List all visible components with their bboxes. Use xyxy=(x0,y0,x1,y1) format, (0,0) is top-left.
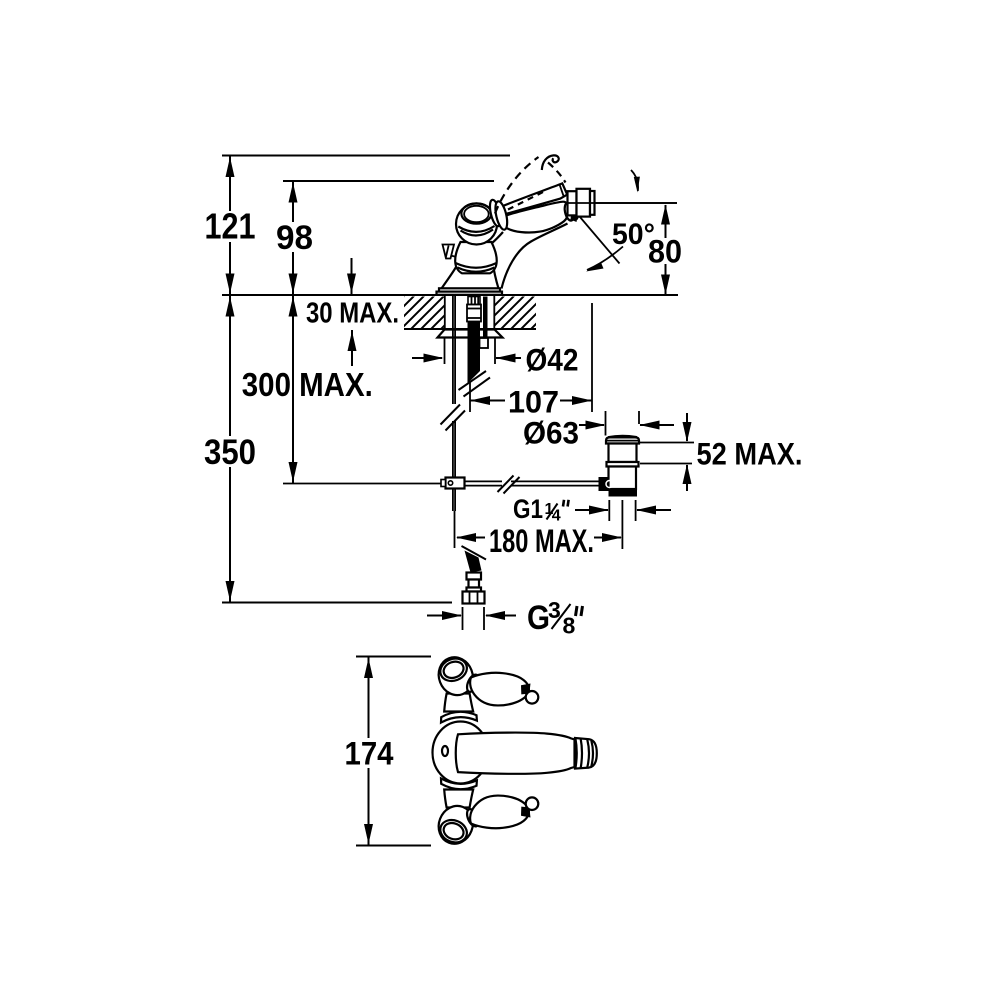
svg-text:98: 98 xyxy=(276,219,313,257)
svg-text:80: 80 xyxy=(648,234,682,270)
svg-text:350: 350 xyxy=(204,432,256,472)
svg-text:G: G xyxy=(527,599,550,637)
svg-text:180 MAX.: 180 MAX. xyxy=(489,522,594,559)
svg-text:8: 8 xyxy=(563,613,576,639)
svg-text:Ø63: Ø63 xyxy=(523,416,579,451)
svg-text:107: 107 xyxy=(508,385,559,420)
svg-text:30 MAX.: 30 MAX. xyxy=(306,298,399,330)
svg-text:Ø42: Ø42 xyxy=(526,343,579,378)
svg-text:52 MAX.: 52 MAX. xyxy=(697,435,803,471)
svg-text:300 MAX.: 300 MAX. xyxy=(242,366,373,403)
svg-text:174: 174 xyxy=(345,735,394,771)
svg-text:121: 121 xyxy=(205,206,256,247)
svg-text:G1: G1 xyxy=(513,494,543,524)
